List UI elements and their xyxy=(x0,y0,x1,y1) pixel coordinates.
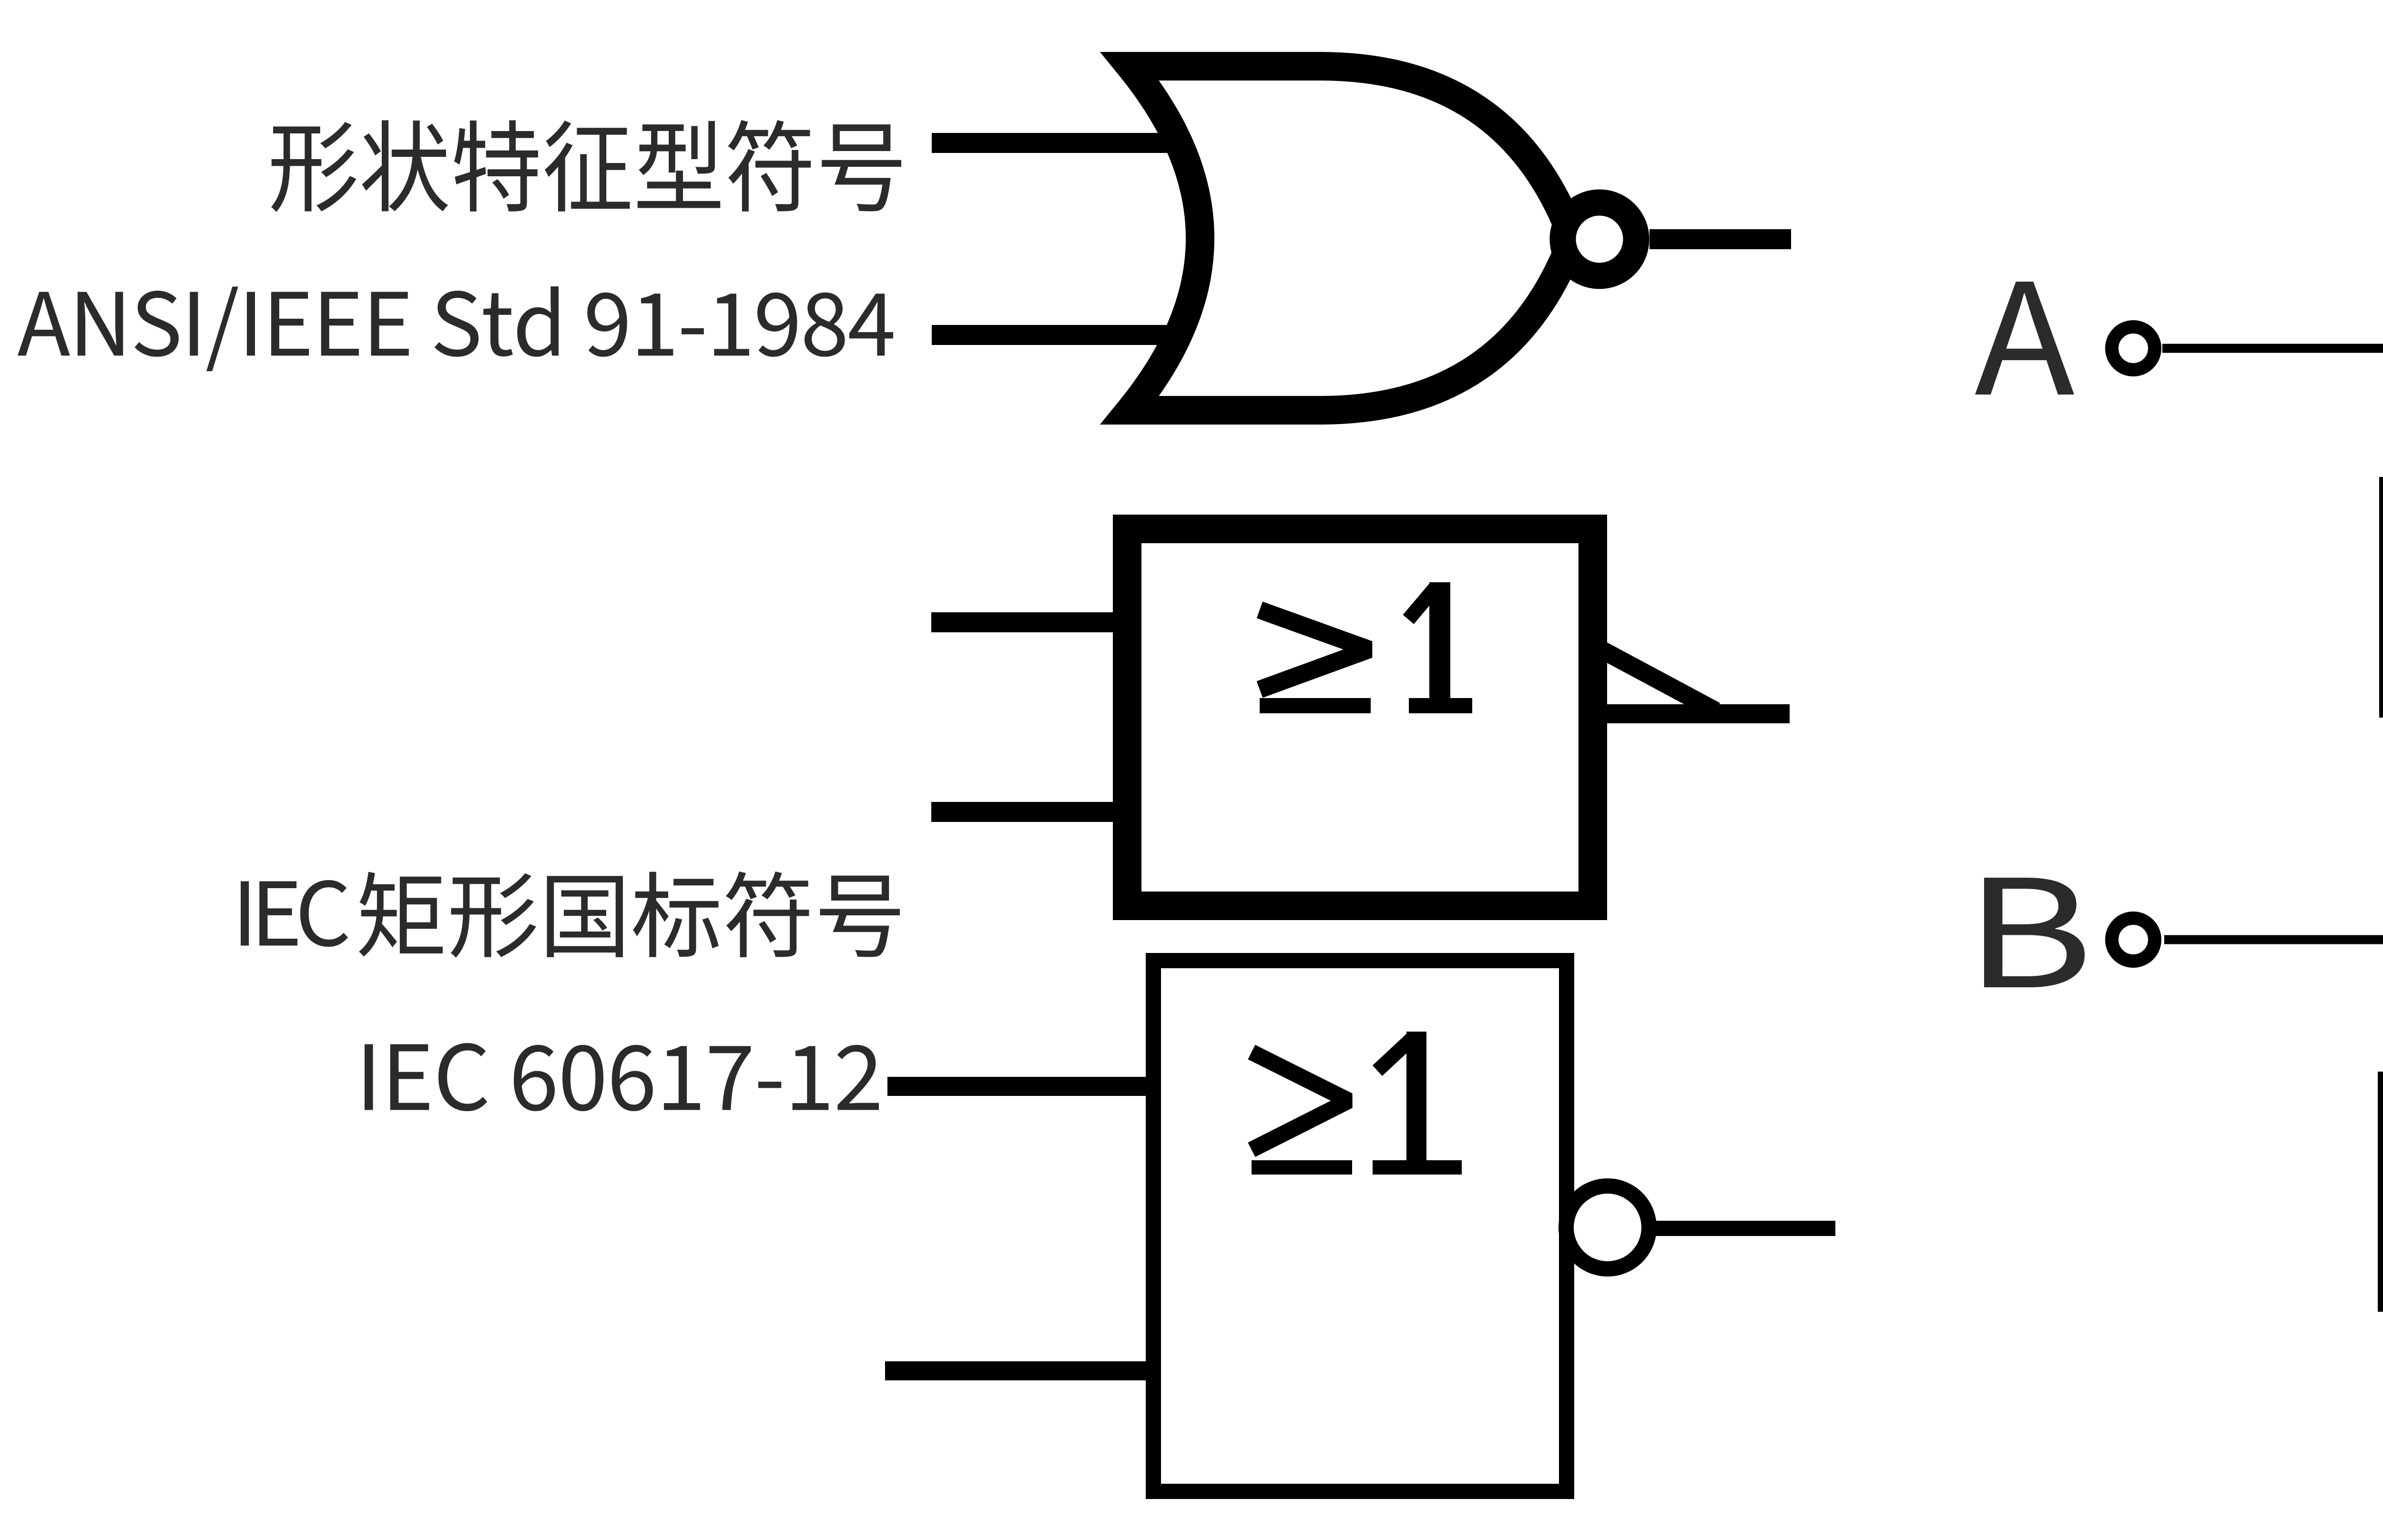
label: IEC 60617-12 xyxy=(365,1043,879,1111)
wire: U2 input 1 xyxy=(931,612,1127,632)
NOR gate U2 body (GB/T thick rectangle) xyxy=(1127,529,1593,906)
wire: NOR U1 output xyxy=(1650,229,1791,249)
polarity indicator wedge of U2 xyxy=(1597,647,1716,711)
wire: A to coil K1 xyxy=(2162,348,2383,477)
label: IEC矩形国标符号 (CJK part) xyxy=(359,871,900,958)
wire: NOR U1 input 2 xyxy=(932,325,1182,345)
value label >=1 of U2 : greater-equal sign xyxy=(1260,610,1369,689)
value label >=1 of U3 : digit 1 xyxy=(1406,1032,1426,1160)
wire: U3 input 2 xyxy=(885,1361,1153,1380)
wire: U2 output xyxy=(1607,704,1790,723)
value label >=1 of U2 : digit 1 xyxy=(1429,582,1450,698)
label: input A xyxy=(1975,282,2074,395)
inversion bubble of U1 xyxy=(1563,203,1636,276)
wire: B to coil K2 xyxy=(2164,940,2383,1072)
label: ANSI/IEEE Std 91-1984 xyxy=(18,286,893,371)
inversion bubble of U3 xyxy=(1566,1186,1649,1269)
label: input B xyxy=(1984,878,2085,987)
wire: U3 input 1 xyxy=(887,1077,1153,1096)
wire: NOR U1 input 1 xyxy=(932,133,1182,153)
wire: U2 input 2 xyxy=(931,802,1127,822)
value label >=1 of U3 : greater-equal sign xyxy=(1252,1052,1349,1150)
label: IEC矩形国标符号 (IEC part) xyxy=(241,880,348,947)
NOR gate U1 body (ANSI distinctive shape) xyxy=(1130,66,1573,410)
wire: U3 output xyxy=(1650,1221,1835,1236)
label: 形状特征型符号 xyxy=(271,120,901,212)
terminal A xyxy=(2112,327,2155,370)
NOR gate U3 body (IEC 60617-12 rectangle) xyxy=(1153,961,1567,1491)
terminal B xyxy=(2112,918,2155,961)
